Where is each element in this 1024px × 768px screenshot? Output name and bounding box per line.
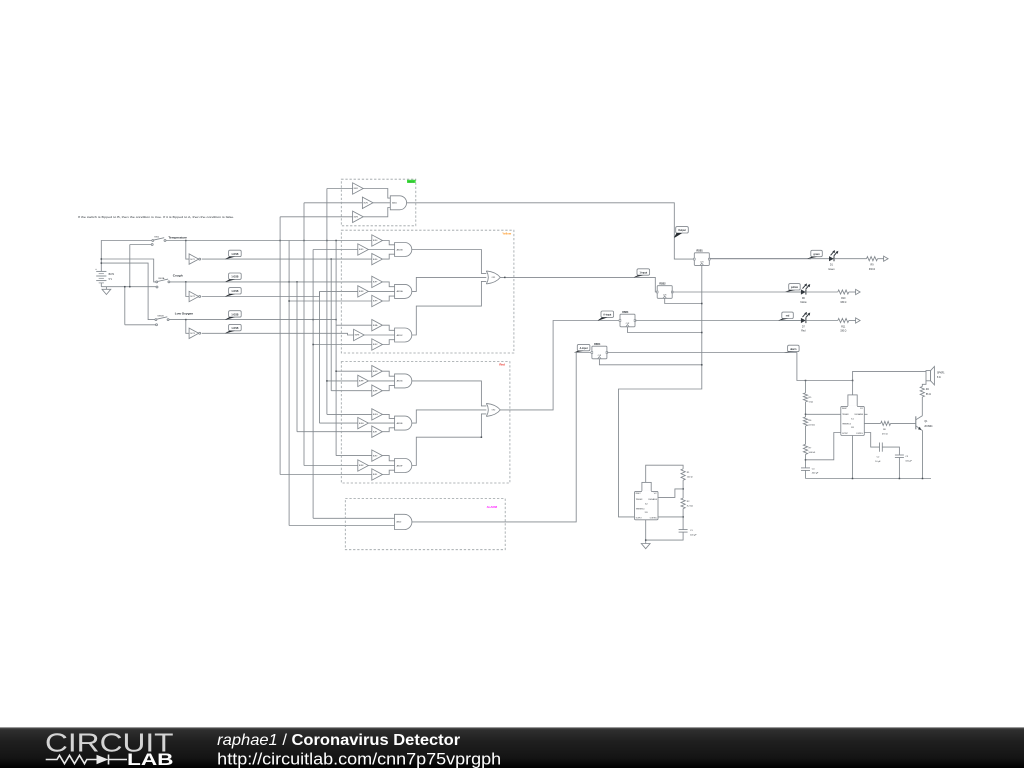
svg-text:OUTPUT: OUTPUT — [842, 433, 848, 435]
wire A col row3 — [124, 287, 126, 325]
wire ground rail — [101, 286, 156, 288]
svg-text:AND1: AND1 — [392, 202, 397, 205]
latch RSB1 — [693, 250, 710, 265]
wire emitter down — [922, 431, 924, 479]
svg-text:1-input: 1-input — [639, 271, 647, 274]
wire RSB1 output — [710, 258, 811, 260]
svg-text:AND2: AND2 — [397, 521, 402, 524]
label Red — [499, 362, 505, 366]
svg-text:1-OSB: 1-OSB — [231, 254, 238, 256]
wire BUF1 out — [363, 189, 390, 199]
svg-text:100 μF: 100 μF — [905, 461, 912, 463]
resistor R1 — [681, 469, 693, 480]
wire C3 down — [898, 458, 900, 479]
wire AND3C out — [412, 281, 487, 335]
svg-text:green: green — [813, 254, 820, 256]
svg-text:LAB: LAB — [127, 750, 174, 768]
group AND3B yellow1 — [358, 235, 412, 265]
transistor Q1 — [916, 416, 933, 431]
wire discharge stub — [864, 413, 867, 415]
svg-text:SPKR1: SPKR1 — [937, 373, 945, 375]
wire AND3A out — [412, 277, 487, 291]
flag net y259.1 — [225, 250, 241, 259]
label ALARM — [487, 505, 498, 509]
wire AND3E out — [412, 410, 487, 423]
svg-text:555: 555 — [645, 512, 648, 514]
svg-text:RESET: RESET — [636, 493, 641, 495]
svg-text:AND3E: AND3E — [397, 422, 404, 425]
svg-text:If the switch is flipped to B,: If the switch is flipped to B, then the … — [78, 215, 235, 219]
note text — [78, 215, 235, 219]
svg-text:8 Ω: 8 Ω — [937, 377, 941, 379]
svg-text:BUFI: BUFI — [373, 431, 377, 433]
wire NOT1 input — [186, 241, 189, 260]
junction battery taps — [101, 258, 103, 264]
wire led yellow 3 — [849, 291, 856, 293]
green dashed box — [341, 179, 416, 226]
inverter NOT3 — [189, 328, 201, 338]
wire rail B2 — [101, 259, 156, 282]
ground — [102, 287, 111, 295]
label Cough — [173, 274, 183, 278]
or-gate OR1 — [486, 271, 500, 284]
flag net y319.6 — [225, 311, 241, 320]
svg-text:yellow: yellow — [791, 287, 798, 289]
junction C — [185, 281, 298, 283]
svg-text:RSB1: RSB1 — [697, 250, 704, 252]
wire R1-R2 — [682, 480, 684, 498]
wire A row1 stub — [130, 244, 153, 246]
yellow dashed box — [341, 230, 514, 353]
svg-text:BUF7: BUF7 — [373, 282, 377, 284]
svg-text:TRIGGER: TRIGGER — [842, 414, 849, 416]
svg-text:A-input: A-input — [603, 314, 611, 317]
switch SW1 — [152, 237, 166, 242]
wire battery top — [101, 241, 153, 272]
wire RSB3 output — [635, 320, 801, 322]
label R10 — [840, 298, 846, 304]
svg-text:AND3C: AND3C — [397, 334, 404, 337]
wire harness columns — [280, 189, 336, 526]
flag net y281.9 — [225, 273, 241, 282]
wire gnd pin IC1 — [852, 436, 854, 479]
wire C2 to C3 — [882, 447, 899, 455]
wire AND3D out — [412, 381, 487, 406]
wire RSB3 clr — [628, 327, 702, 333]
flag A-input r4 — [574, 344, 590, 352]
resistor R7 — [803, 444, 815, 454]
svg-text:56 Ω: 56 Ω — [926, 394, 931, 396]
wire R7-C4 — [805, 454, 807, 468]
resistor R10 — [838, 290, 849, 294]
wire NOT1 output — [202, 258, 372, 260]
LED D6 — [801, 283, 810, 294]
svg-text:BUF1: BUF1 — [354, 188, 358, 190]
wire AND2 output — [412, 353, 592, 522]
flag 1-input — [634, 269, 650, 278]
svg-text:BUFL: BUFL — [373, 474, 377, 476]
wire AND3F out — [412, 414, 487, 466]
capacitor C3 — [895, 455, 913, 463]
svg-text:BUF4: BUF4 — [373, 240, 377, 242]
flag alarm — [784, 345, 799, 352]
wire BUF2 out — [373, 202, 390, 204]
svg-text:Yellow: Yellow — [502, 231, 512, 235]
wire R4 to Q1 — [921, 397, 923, 416]
svg-text:http://circuitlab.com/cnn7p75v: http://circuitlab.com/cnn7p75vprgph — [217, 750, 501, 768]
junction NOT1 out — [330, 258, 332, 260]
svg-text:OR2: OR2 — [492, 410, 496, 412]
svg-text:Red: Red — [499, 362, 505, 366]
latch RSB2 — [656, 283, 673, 298]
svg-text:R11: R11 — [841, 326, 846, 328]
svg-text:THRESHOLD: THRESHOLD — [636, 508, 645, 510]
resistor R9 — [867, 257, 878, 261]
svg-text:1-OSB: 1-OSB — [231, 291, 238, 293]
label R9 — [869, 265, 875, 271]
wire trigger — [806, 413, 841, 415]
svg-text:AND3B: AND3B — [397, 248, 404, 251]
svg-text:AND3D: AND3D — [397, 380, 404, 383]
wire led red 2 — [806, 320, 838, 322]
svg-text:A-input: A-input — [580, 347, 588, 350]
wire R6-R7 — [805, 426, 807, 444]
junction gnd rail — [124, 286, 131, 288]
flag net y333.3 — [225, 324, 241, 333]
svg-text:CONTROL: CONTROL — [856, 433, 863, 435]
svg-text:red: red — [786, 316, 790, 318]
svg-text:Low Oxygen: Low Oxygen — [175, 311, 194, 315]
svg-text:BUFD: BUFD — [373, 371, 378, 373]
and-gate AND1 — [390, 196, 406, 210]
svg-text:AND3A: AND3A — [397, 290, 404, 293]
svg-text:ALARM: ALARM — [487, 505, 498, 509]
ic 555 IC2 — [635, 482, 659, 519]
terminal red — [856, 318, 861, 323]
svg-text:Yellow: Yellow — [800, 302, 807, 304]
flag A-input r3 — [598, 311, 614, 321]
svg-text:8.2 kΩ: 8.2 kΩ — [687, 506, 694, 508]
svg-text:BUF9: BUF9 — [373, 301, 377, 303]
wire discharge2 — [658, 489, 683, 498]
svg-text:BUF6: BUF6 — [373, 259, 377, 261]
wire RSB1 clr bus — [619, 265, 702, 517]
wire vcc notch — [852, 381, 854, 395]
wire chain top — [805, 381, 807, 393]
resistor R5 — [803, 393, 813, 404]
switch SW1A — [156, 277, 170, 283]
svg-text:R10: R10 — [841, 298, 846, 300]
wire rail B3 — [101, 263, 156, 320]
wire C4 bottom — [805, 470, 807, 478]
label R11 — [840, 326, 846, 332]
junction clr2 — [701, 303, 703, 305]
wire green row — [710, 258, 811, 260]
capacitor C2 — [875, 443, 882, 463]
junction L — [185, 319, 337, 321]
svg-text:NOT3: NOT3 — [190, 333, 195, 335]
wire led green 3 — [878, 258, 884, 260]
svg-text:RSB4: RSB4 — [594, 343, 601, 346]
group AND3C yellow3 — [354, 320, 412, 351]
wire RSB2 output — [672, 291, 801, 293]
battery BAT1 — [95, 268, 115, 283]
wire led yellow 2 — [806, 291, 838, 293]
capacitor C1 — [679, 530, 698, 537]
svg-text:BUF3: BUF3 — [354, 217, 358, 219]
label D6 — [800, 298, 807, 304]
switch SW1B — [155, 316, 169, 321]
wire bottom rail — [806, 478, 932, 480]
svg-text:SW1A: SW1A — [158, 277, 165, 280]
svg-text:BUF2: BUF2 — [364, 203, 368, 205]
resistor R11 — [838, 318, 849, 322]
svg-text:400 μF: 400 μF — [812, 473, 819, 475]
wire threshold2 — [658, 516, 683, 518]
wire AND3B out — [412, 250, 487, 274]
svg-text:VCC: VCC — [654, 493, 657, 495]
label D1 — [828, 265, 835, 271]
wire RSB4 clr — [599, 359, 701, 365]
wire IC2 gnd — [645, 520, 647, 544]
label Green — [407, 180, 416, 184]
svg-text:Green: Green — [828, 268, 835, 271]
wire T line — [166, 240, 372, 242]
wire A row3 stub — [125, 324, 158, 326]
and-gate AND2 alarm — [395, 514, 412, 529]
wire vcc rail top — [806, 371, 927, 380]
wire RSB2 clr — [665, 298, 702, 303]
junction clr3 — [701, 332, 703, 334]
group AND3A yellow2 — [358, 276, 412, 307]
svg-text:NOT1: NOT1 — [190, 259, 195, 261]
wire led red 3 — [849, 320, 856, 322]
label Temperature — [168, 235, 187, 239]
svg-text:100 μF: 100 μF — [690, 534, 697, 536]
junction gnd2 — [645, 539, 647, 541]
red dashed box — [341, 362, 510, 483]
svg-text:330 Ω: 330 Ω — [840, 302, 846, 304]
capacitor C4 — [801, 468, 819, 475]
svg-text:RESET: RESET — [842, 408, 847, 410]
svg-text:SW1B: SW1B — [157, 316, 164, 318]
svg-text:OR1: OR1 — [492, 277, 496, 279]
group AND3D red1 — [358, 366, 412, 397]
buffer BUF1 — [353, 183, 364, 194]
wire C line — [170, 281, 372, 283]
wire led green 1 — [809, 258, 829, 260]
label Yellow — [502, 231, 512, 235]
wire led green 2 — [834, 258, 867, 260]
wire BUF3 out — [363, 208, 390, 217]
wire battery bottom — [100, 283, 102, 287]
svg-text:alarm: alarm — [790, 349, 796, 351]
svg-text:BUF8: BUF8 — [359, 291, 363, 293]
junction threshold — [805, 459, 807, 461]
svg-text:500 kΩ: 500 kΩ — [809, 452, 816, 454]
pink dashed box — [345, 499, 505, 550]
junction threshold2 — [682, 516, 684, 518]
svg-text:AND3F: AND3F — [397, 464, 404, 467]
flag Output — [674, 227, 688, 238]
LED D7 — [801, 312, 810, 323]
svg-text:BUFG: BUFG — [373, 414, 378, 416]
svg-text:NOT2: NOT2 — [190, 296, 195, 298]
junction bottom rail — [852, 478, 924, 480]
svg-text:BUFJ: BUFJ — [373, 455, 377, 457]
svg-text:IC2: IC2 — [645, 503, 648, 505]
terminal green — [884, 256, 889, 261]
svg-text:THRESHOLD: THRESHOLD — [842, 423, 851, 425]
wire led yellow 1 — [787, 291, 801, 293]
wire led red 1 — [780, 320, 801, 322]
buffer BUF3 — [353, 211, 364, 222]
or-gate OR2 — [486, 403, 500, 416]
wire R8 to base — [891, 422, 916, 424]
junction AND3F path — [481, 436, 483, 438]
svg-text:1-OSB: 1-OSB — [231, 277, 238, 279]
resistor R2 — [681, 498, 693, 509]
svg-text:IC1: IC1 — [851, 418, 854, 420]
svg-text:330 Ω: 330 Ω — [840, 331, 846, 333]
flag red — [778, 312, 793, 320]
svg-text:470 Ω: 470 Ω — [882, 434, 888, 436]
svg-text:BUF5: BUF5 — [359, 249, 363, 251]
terminal yellow — [856, 289, 861, 294]
wire L line — [169, 319, 336, 321]
ground IC2 — [641, 544, 650, 549]
inverter NOT1 — [189, 254, 201, 264]
junction T — [185, 240, 337, 242]
svg-text:CONTROL: CONTROL — [650, 518, 657, 520]
junction discharge2 — [682, 488, 684, 490]
node gnd contact row2A — [156, 286, 158, 288]
svg-text:RSB2: RSB2 — [659, 283, 666, 285]
flag yellow — [785, 284, 800, 292]
svg-text:100 Ω: 100 Ω — [687, 476, 693, 478]
svg-text:RSB3: RSB3 — [622, 312, 629, 314]
svg-text:VCC: VCC — [860, 408, 863, 410]
label D7 — [801, 326, 806, 332]
svg-text:Green: Green — [408, 180, 415, 183]
wire R5-R6 — [805, 402, 807, 417]
wire OR2 output — [500, 321, 620, 410]
junction trigger — [805, 414, 807, 416]
wire control C2 — [864, 433, 879, 448]
svg-text:555: 555 — [851, 427, 854, 429]
svg-text:TRIGGER: TRIGGER — [636, 499, 643, 501]
svg-text:5 V: 5 V — [109, 279, 113, 281]
flag net y296.5 — [225, 288, 241, 297]
label Low Oxygen — [175, 311, 194, 315]
svg-text:Cough: Cough — [173, 274, 183, 278]
group AND3F red3 — [358, 450, 412, 480]
svg-text:SW1: SW1 — [154, 237, 160, 239]
ic 555 IC1 — [841, 395, 865, 436]
svg-text:Temperature: Temperature — [168, 235, 187, 239]
wire A col row1 — [129, 245, 131, 287]
latch RSB3 — [619, 312, 636, 327]
group AND3E red2 — [358, 409, 412, 438]
svg-text:BAT1: BAT1 — [109, 273, 115, 276]
wire IC2 vcc — [646, 465, 683, 482]
junction harness — [288, 300, 337, 381]
resistor R6 — [803, 417, 815, 426]
junction clr4 — [701, 364, 703, 366]
LED D1 — [829, 250, 838, 261]
svg-text:BUFC: BUFC — [373, 344, 378, 346]
wire NOT3 output — [202, 333, 354, 335]
footer bar — [0, 727, 1024, 768]
resistor R8 — [881, 421, 891, 435]
svg-text:10 μF: 10 μF — [875, 461, 881, 463]
svg-text:Red: Red — [801, 331, 806, 333]
svg-text:330 Ω: 330 Ω — [869, 269, 875, 271]
svg-text:1-OSB: 1-OSB — [231, 328, 238, 330]
wire NOT3 input — [186, 320, 189, 334]
svg-text:Output: Output — [678, 229, 686, 232]
wire RSB4 output — [607, 353, 806, 381]
resistor R4 — [920, 387, 931, 398]
logo resistor-diode squiggle — [46, 755, 127, 765]
wire NOT2 output — [202, 291, 320, 296]
wire harness taps — [280, 189, 394, 526]
speaker SPKR1 — [926, 367, 945, 385]
svg-text:2N3904: 2N3904 — [924, 426, 933, 428]
wire AND1 output — [407, 203, 695, 259]
wire spkr to R4 — [922, 381, 926, 387]
latch RSB4 — [591, 343, 608, 359]
svg-text:OUTPUT: OUTPUT — [636, 518, 642, 520]
flag green — [807, 250, 822, 258]
svg-text:BUFF: BUFF — [373, 390, 377, 392]
wire IC1 output — [864, 422, 880, 424]
wire OR1 output — [500, 277, 657, 292]
wire NOT2 input — [186, 282, 189, 297]
svg-text:raphae1 / Coronavirus Detector: raphae1 / Coronavirus Detector — [217, 732, 460, 749]
buffer BUF2 — [362, 197, 373, 208]
svg-text:1-OSB: 1-OSB — [231, 314, 238, 316]
wire C1 down — [646, 532, 683, 540]
svg-text:6.8 kΩ: 6.8 kΩ — [809, 424, 816, 426]
junction rails — [805, 380, 854, 382]
junction OR1 out — [504, 277, 506, 279]
inverter NOT2 — [189, 291, 201, 301]
wire threshold — [806, 433, 841, 460]
svg-text:BUFH: BUFH — [359, 423, 364, 425]
svg-text:1 kΩ: 1 kΩ — [809, 401, 814, 403]
wire R2-C1 — [682, 509, 684, 530]
